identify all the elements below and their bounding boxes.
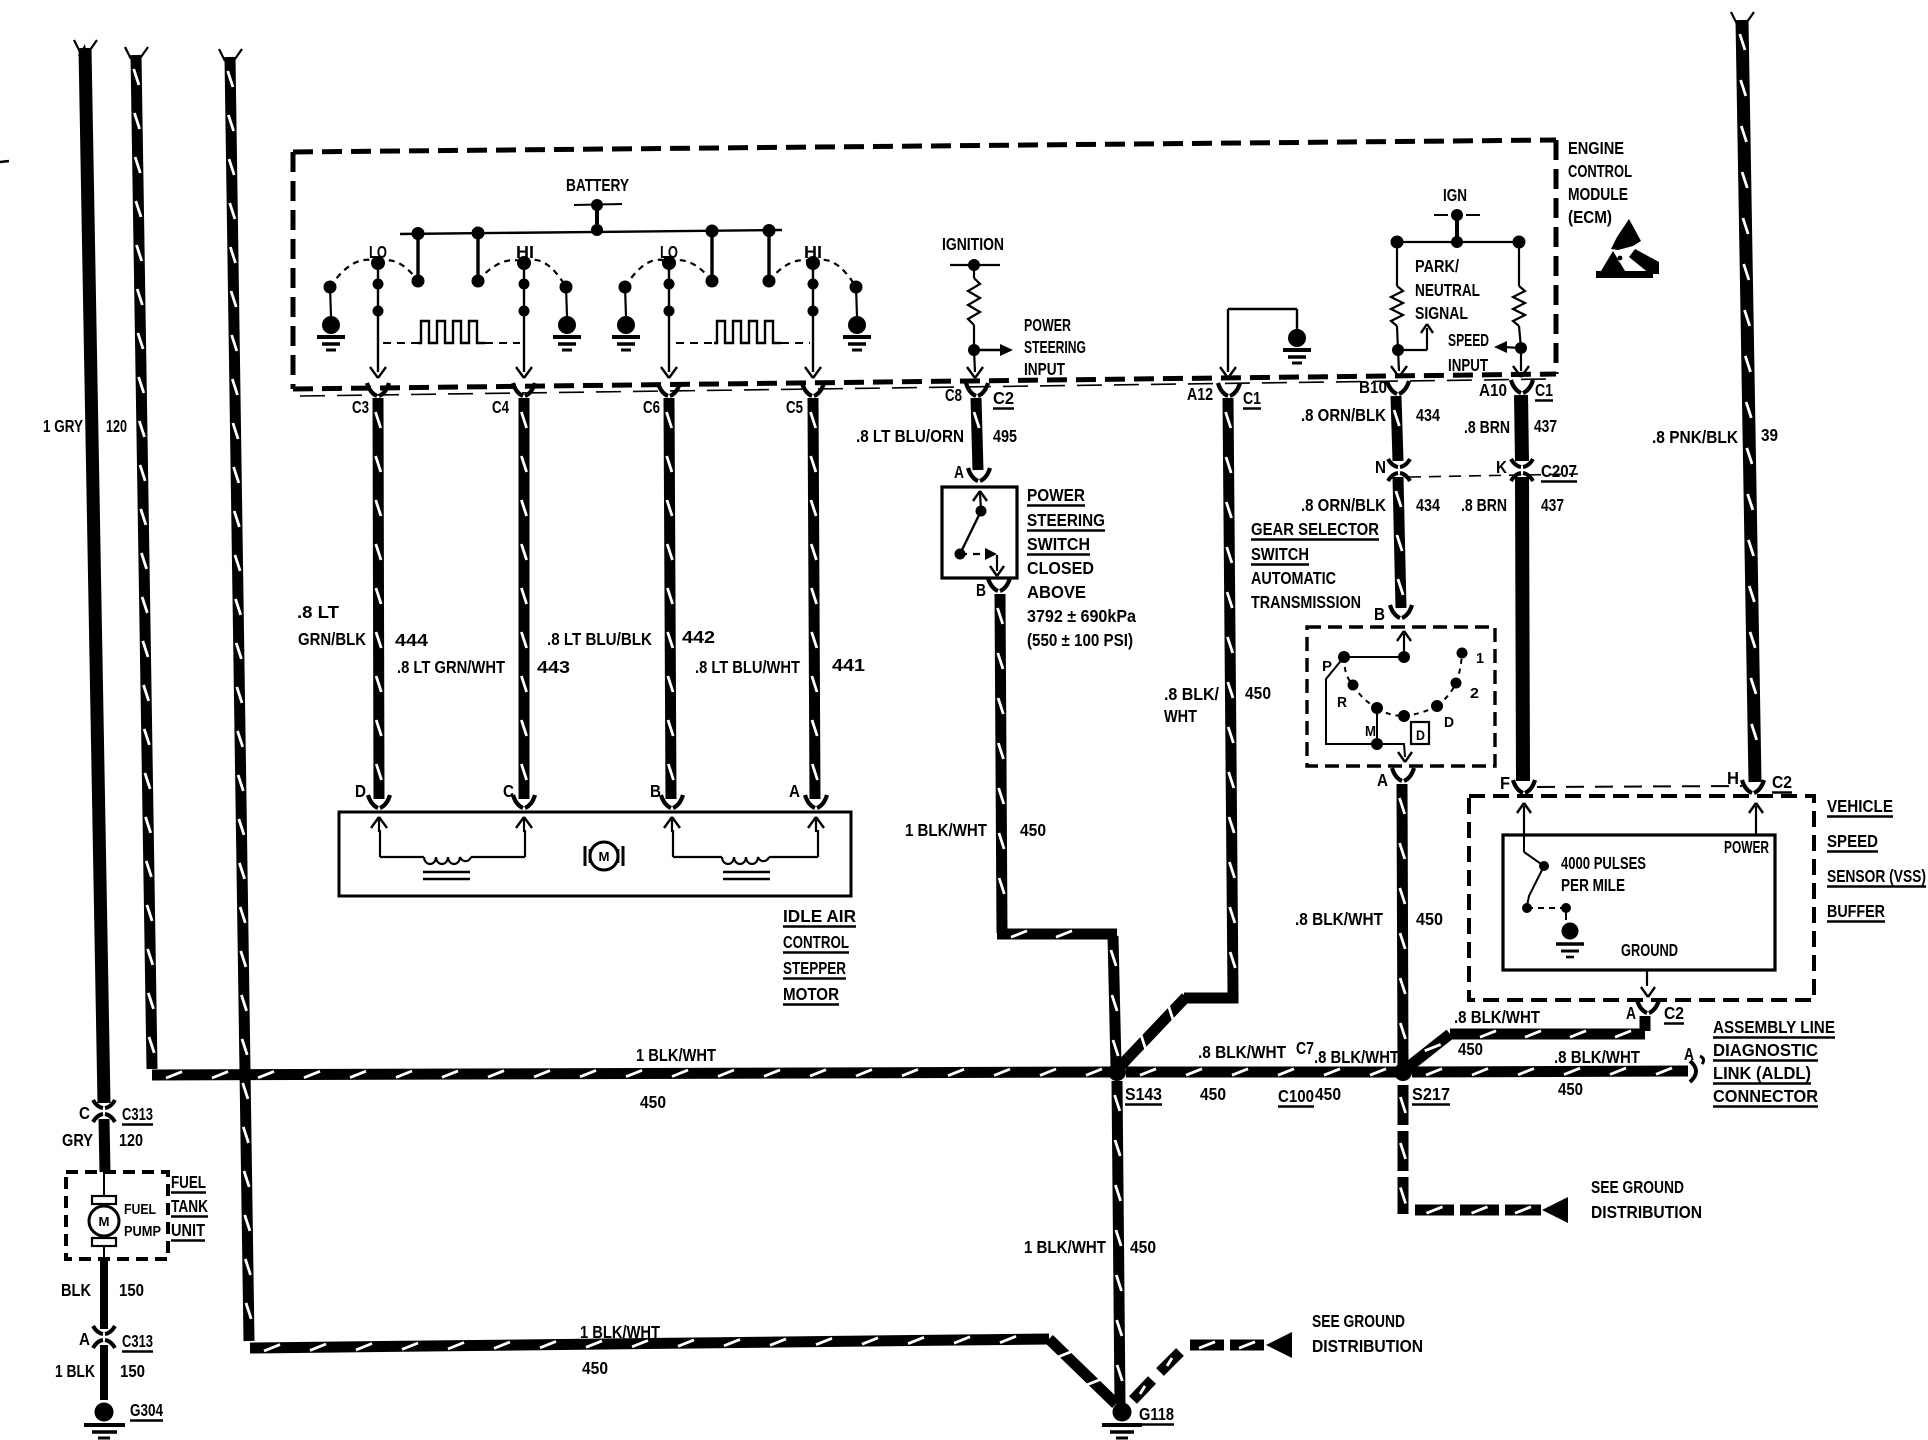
IAC wire C (.8 LT GRN/WHT 443) [519,398,530,799]
svg-text:BLK: BLK [61,1280,91,1300]
svg-text:WHT: WHT [1164,706,1197,726]
IAC pin B chevron [661,795,671,808]
connector C313 upper (C) [93,1100,103,1108]
ESD sensitivity symbol [1611,219,1641,250]
svg-text:.8 BLK/WHT: .8 BLK/WHT [1454,1007,1540,1027]
connector C4 chevron [513,383,523,396]
ground G304 [95,1403,114,1422]
HI arc apex dot [806,256,820,270]
svg-text:437: 437 [1541,495,1564,515]
svg-text:G304: G304 [130,1400,163,1420]
svg-text:A10: A10 [1479,380,1507,400]
IAC wire D (.8 LT GRN/BLK 444) [378,398,379,799]
HI signal column [523,263,525,372]
fuel pump motor [103,1172,105,1196]
gear selector common line [1398,651,1410,663]
IGN terminal [1434,214,1448,216]
VSS inner box [1503,835,1775,970]
wire K to VSS F [1522,477,1523,781]
ALDL male connector end [1690,1061,1696,1082]
svg-text:.8 ORN/BLK: .8 ORN/BLK [1301,495,1386,515]
svg-text:SEE GROUND: SEE GROUND [1312,1311,1405,1331]
park/neutral resistor left [1396,242,1398,286]
power steering input arrow [974,349,1004,351]
HI ground branch [560,281,573,294]
A10 exit arrow [1520,348,1522,371]
gear selector dashed box [1307,627,1495,766]
connector C3 chevron [367,383,377,396]
LO signal column [668,263,670,372]
svg-text:C100: C100 [1278,1086,1314,1106]
svg-text:(550 ± 100 PSI): (550 ± 100 PSI) [1027,630,1133,650]
HI ground branch [850,281,863,294]
IAC entry arrow D [378,818,380,832]
connector B10 chevron [1387,381,1397,394]
svg-text:3792 ± 690kPa: 3792 ± 690kPa [1027,606,1136,626]
wire 4 .8 PNK/BLK 39 [1742,20,1755,782]
svg-text:POWER: POWER [1724,837,1769,857]
svg-text:C2: C2 [993,388,1014,408]
svg-text:S143: S143 [1125,1084,1162,1104]
svg-text:H: H [1727,768,1739,788]
dashed ground wire from S217 [1398,1085,1409,1125]
svg-text:C313: C313 [122,1331,153,1351]
svg-text:GEAR SELECTOR: GEAR SELECTOR [1251,519,1379,539]
VSS buffer dashed box [1469,796,1814,1000]
svg-text:SIGNAL: SIGNAL [1415,303,1468,323]
svg-text:MOTOR: MOTOR [783,984,839,1004]
svg-text:TRANSMISSION: TRANSMISSION [1251,592,1361,612]
LO arc apex dot [662,256,676,270]
VSS internal ground [1562,923,1579,940]
svg-text:DISTRIBUTION: DISTRIBUTION [1591,1202,1702,1222]
svg-text:C7: C7 [1296,1038,1314,1058]
svg-text:SEE GROUND: SEE GROUND [1591,1177,1684,1197]
svg-text:UNIT: UNIT [171,1220,205,1240]
svg-text:B10: B10 [1359,377,1387,397]
svg-text:STEERING: STEERING [1027,510,1105,530]
M contact column [1376,708,1378,744]
A12 exit arrow [1220,367,1228,378]
wire A10 .8 BRN 437 upper [1521,395,1522,461]
square wave 1 dashed leads [383,342,418,344]
svg-text:POWER: POWER [1027,485,1085,505]
A12 internal ground loop [1227,309,1229,372]
svg-text:DIAGNOSTIC: DIAGNOSTIC [1713,1040,1818,1060]
svg-text:443: 443 [537,657,570,677]
svg-text:434: 434 [1416,405,1440,425]
svg-text:C207: C207 [1541,461,1577,481]
VSS power entry arrow [1755,806,1757,835]
bottom bus wire 450 [250,1339,1049,1348]
IAC pin A chevron [805,795,815,808]
svg-text:D: D [1416,727,1425,743]
svg-text:GRN/BLK: GRN/BLK [298,629,366,649]
svg-text:C: C [79,1103,90,1123]
dashed ground wire from G118 [1133,1380,1152,1400]
wire S143 down to G118 [1117,1081,1120,1404]
svg-text:450: 450 [1020,820,1046,840]
svg-text:C6: C6 [643,397,660,417]
svg-text:.8 ORN/BLK: .8 ORN/BLK [1301,405,1386,425]
connector B chevron (PS switch) [988,578,998,591]
svg-text:GRY: GRY [62,1130,93,1150]
svg-text:SWITCH: SWITCH [1251,544,1309,564]
PS switch output wire 1 BLK/WHT 450 [1000,594,1002,933]
svg-text:INPUT: INPUT [1448,355,1488,375]
speed input resistor right [1518,242,1520,286]
ground distribution arrow (upper) [1542,1197,1568,1223]
connector C313 lower (A) [93,1326,103,1334]
svg-text:C2: C2 [1664,1003,1684,1023]
wire C8 to power steering switch [976,398,978,470]
connector F chevron [1513,780,1523,793]
connector A/C2 chevron (VSS ground) [1637,1000,1647,1013]
svg-text:1 BLK/WHT: 1 BLK/WHT [1024,1237,1106,1257]
connector C5 chevron [802,383,812,396]
connector face thin dashed line [300,379,1550,396]
svg-text:R: R [1337,694,1347,711]
svg-text:MODULE: MODULE [1568,184,1628,204]
svg-text:G118: G118 [1139,1404,1174,1424]
battery bus line [400,230,782,234]
LO ground branch [324,281,337,294]
IAC entry arrow A [815,818,817,832]
svg-text:SPEED: SPEED [1827,831,1878,851]
svg-text:.8 BLK/: .8 BLK/ [1164,684,1219,704]
svg-text:ENGINE: ENGINE [1568,138,1624,158]
svg-text:C3: C3 [352,397,369,417]
svg-text:SWITCH: SWITCH [1027,534,1090,554]
svg-text:.8 LT BLU/ORN: .8 LT BLU/ORN [856,426,964,446]
svg-text:450: 450 [582,1358,608,1378]
svg-text:B: B [1374,604,1385,624]
svg-text:434: 434 [1416,495,1440,515]
svg-text:C1: C1 [1243,388,1261,408]
ECM module dashed box [293,140,1556,152]
svg-text:450: 450 [1200,1084,1226,1104]
svg-text:SPEED: SPEED [1448,330,1489,350]
svg-text:S217: S217 [1412,1084,1450,1104]
connector C8 chevron [966,383,976,396]
wire A12 .8 BLK/WHT 450 [1228,398,1233,994]
svg-text:BUFFER: BUFFER [1827,901,1885,921]
svg-text:444: 444 [395,630,428,650]
svg-text:B: B [976,580,986,600]
svg-text:450: 450 [1558,1079,1583,1099]
fuel tank unit dashed box [66,1172,168,1259]
ignition resistor [973,265,975,278]
VSS F entry arrow [1523,806,1525,835]
svg-text:.8 BLK/WHT: .8 BLK/WHT [1554,1047,1640,1067]
IAC winding 1 [379,830,381,857]
VSS ground exit [1646,970,1648,986]
svg-text:C2: C2 [1772,772,1792,792]
connector B chevron (gear selector) [1390,605,1400,618]
svg-text:IGNITION: IGNITION [942,234,1004,254]
svg-text:150: 150 [120,1361,145,1381]
svg-text:A: A [1377,770,1388,790]
IAC entry arrow C [523,818,525,832]
svg-text:K: K [1496,457,1507,477]
svg-text:POWER: POWER [1024,315,1071,335]
HI signal column [812,263,814,372]
HI dashed arc [478,260,524,281]
svg-text:1 BLK/WHT: 1 BLK/WHT [636,1045,716,1065]
LO arc apex dot [371,256,385,270]
position dots and dashed arc [1344,657,1353,685]
speed input arrow [1503,347,1521,348]
svg-text:450: 450 [1458,1039,1483,1059]
svg-text:A12: A12 [1187,384,1213,404]
svg-text:FUEL: FUEL [124,1201,156,1218]
svg-text:BATTERY: BATTERY [566,175,629,195]
LO signal column [377,263,379,372]
svg-text:PUMP: PUMP [124,1223,161,1240]
gear selector entry arrow [1403,634,1405,657]
svg-text:C1: C1 [1535,380,1553,400]
wire GRY 120 to fuel tank unit [104,1119,105,1172]
svg-text:CONNECTOR: CONNECTOR [1713,1086,1818,1106]
svg-text:F: F [1500,773,1510,793]
svg-text:LINK (ALDL): LINK (ALDL) [1713,1063,1811,1083]
main bus wire 450 right segment [1412,1071,1688,1072]
svg-text:450: 450 [640,1092,666,1112]
svg-text:450: 450 [1245,683,1271,703]
dropper bars to coil taps [416,233,419,281]
svg-text:A: A [1684,1044,1694,1064]
svg-text:C313: C313 [122,1104,153,1124]
IAC entry arrow B [671,818,673,832]
svg-text:SENSOR (VSS): SENSOR (VSS) [1827,866,1926,886]
svg-text:NEUTRAL: NEUTRAL [1415,280,1480,300]
svg-text:M: M [1365,723,1376,740]
svg-text:.8 LT GRN/WHT: .8 LT GRN/WHT [397,657,505,677]
power steering switch box [942,487,1017,578]
wire 3 (BLK/WHT 450 lower branch) [230,57,249,1341]
svg-text:.8 PNK/BLK: .8 PNK/BLK [1652,427,1738,447]
ground distribution arrow (lower) [1266,1332,1292,1358]
connector A10 chevron [1511,380,1521,393]
IAC motor box [339,812,851,896]
svg-text:1 GRY: 1 GRY [43,416,83,436]
svg-text:.8 BRN: .8 BRN [1464,417,1510,437]
wire 2 (BLK/WHT 450 branch) [136,55,152,1069]
svg-text:STEERING: STEERING [1024,337,1086,357]
wire B10 .8 ORN/BLK 434 upper [1396,396,1398,461]
svg-text:D: D [355,781,366,801]
svg-text:442: 442 [682,627,715,647]
connector A chevron (PS switch) [968,468,978,481]
PS switch contact [976,506,987,517]
svg-text:A: A [79,1329,90,1349]
svg-text:.8 LT: .8 LT [297,602,339,622]
svg-text:IGN: IGN [1443,185,1467,205]
junction S217 [1394,1063,1412,1081]
svg-text:INPUT: INPUT [1024,359,1065,379]
LO dashed arc [625,260,669,287]
square wave symbol 1 [418,321,485,343]
boxed D indicator [1411,722,1429,744]
IAC wire A (.8 LT BLU/WHT 441) [813,398,815,799]
svg-text:M: M [99,1214,110,1229]
svg-text:39: 39 [1761,425,1778,445]
svg-text:.8 LT BLU/BLK: .8 LT BLU/BLK [547,629,652,649]
gear selector output line [1377,744,1405,757]
square wave symbol 2 [714,321,781,343]
HI arc apex dot [517,256,531,270]
connector C6 chevron [658,383,668,396]
svg-text:.8 LT BLU/WHT: .8 LT BLU/WHT [695,657,800,677]
wire VSS ground to S217 [1640,1016,1651,1031]
svg-text:437: 437 [1534,416,1557,436]
connector H chevron [1742,780,1752,793]
connector A12 chevron [1218,383,1228,396]
svg-text:.8 BLK/WHT: .8 BLK/WHT [1314,1047,1399,1067]
svg-text:ASSEMBLY LINE: ASSEMBLY LINE [1713,1017,1835,1037]
svg-text:B: B [650,781,661,801]
svg-text:A: A [1626,1003,1636,1023]
svg-text:450: 450 [1416,909,1443,929]
LO dashed arc [330,260,378,287]
svg-text:495: 495 [993,426,1017,446]
svg-text:A: A [954,462,964,482]
svg-text:PARK/: PARK/ [1415,256,1459,276]
svg-text:CLOSED: CLOSED [1027,558,1094,578]
battery terminal symbol [574,204,622,205]
svg-text:120: 120 [119,1130,143,1150]
svg-text:150: 150 [119,1280,144,1300]
svg-text:AUTOMATIC: AUTOMATIC [1251,568,1336,588]
page tick mark [0,161,9,162]
svg-text:C: C [503,781,514,801]
svg-text:DISTRIBUTION: DISTRIBUTION [1312,1336,1423,1356]
LO ground branch [619,281,632,294]
svg-text:ABOVE: ABOVE [1027,582,1086,602]
svg-text:CONTROL: CONTROL [783,932,849,952]
square wave 2 dashed leads [676,342,714,344]
svg-text:FUEL: FUEL [171,1172,206,1192]
main bus wire 450 left segment [152,1072,1110,1075]
svg-text:4000 PULSES: 4000 PULSES [1561,853,1646,873]
IAC pin C chevron [513,795,523,808]
svg-text:C4: C4 [492,397,509,417]
wire gear selector A to S217 [1402,784,1403,1065]
svg-text:PER MILE: PER MILE [1561,875,1625,895]
junction S143 [1108,1063,1126,1081]
svg-text:.8 BLK/WHT: .8 BLK/WHT [1198,1042,1286,1062]
svg-text:M: M [599,849,610,864]
svg-text:1: 1 [1476,650,1484,667]
ignition terminal [950,264,1000,266]
ECM internal ground symbol [1288,329,1306,347]
HI dashed arc [769,260,813,281]
ground G118 [1113,1403,1132,1422]
svg-text:1 BLK/WHT: 1 BLK/WHT [905,820,987,840]
svg-text:C8: C8 [945,385,962,405]
svg-text:.8 BRN: .8 BRN [1461,495,1507,515]
thin dashed line F to H [1537,786,1742,787]
C207 thin dashed line [1409,474,1578,477]
park/neutral bus line [1397,241,1519,243]
connector N [1388,459,1398,467]
gear selector wiper arm [1326,657,1376,744]
connector A chevron (gear selector) [1392,768,1402,781]
svg-text:2: 2 [1470,685,1479,702]
svg-text:.8 BLK/WHT: .8 BLK/WHT [1295,909,1383,929]
wire N to gear selector B [1398,477,1401,608]
IAC pin D chevron [368,795,378,808]
svg-text:VEHICLE: VEHICLE [1827,796,1893,816]
svg-text:1 BLK: 1 BLK [55,1361,95,1381]
VSS pulse switch [1523,835,1525,852]
main bus wire 450 middle segment [1126,1067,1396,1078]
svg-text:A: A [789,781,800,801]
connector K [1511,459,1521,467]
svg-text:C5: C5 [786,397,803,417]
power steering input tap dot [968,344,980,356]
svg-text:CONTROL: CONTROL [1568,161,1632,181]
park/neutral up arrow [1398,349,1427,351]
svg-text:IDLE AIR: IDLE AIR [783,906,856,926]
IAC motor symbol [584,846,587,866]
svg-text:TANK: TANK [171,1196,208,1216]
svg-text:1 BLK/WHT: 1 BLK/WHT [580,1322,660,1342]
svg-text:N: N [1375,457,1386,477]
IAC winding 2 [672,830,674,857]
bus junction dots [412,227,425,240]
svg-text:450: 450 [1315,1084,1341,1104]
svg-text:441: 441 [832,655,865,675]
wire 1 GRY 120 (fuel pump feed) [85,48,104,1103]
svg-text:GROUND: GROUND [1621,940,1678,960]
wire BLK 150 [100,1259,108,1329]
svg-text:D: D [1444,714,1454,731]
svg-text:STEPPER: STEPPER [783,958,846,978]
IAC wire B (.8 LT BLU/BLK 442) [669,398,671,799]
ignition column exit arrow [974,350,975,372]
B10 exit arrow [1398,350,1399,371]
PS switch entry arrow [980,492,981,511]
svg-text:450: 450 [1130,1237,1156,1257]
svg-text:(ECM): (ECM) [1568,207,1612,227]
svg-text:120: 120 [106,416,127,436]
wire 1 BLK 150 [100,1345,108,1400]
